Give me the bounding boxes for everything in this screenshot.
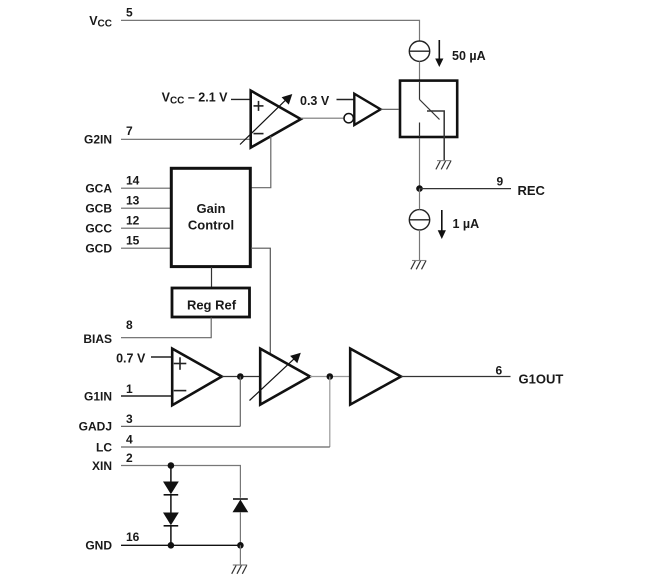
wire 0.7V to comparator U3 (151, 356, 173, 358)
diode D3 cathode bar (233, 498, 248, 500)
block Gain Control (171, 168, 250, 266)
svg-text:Gain: Gain (197, 201, 226, 216)
svg-text:GCC: GCC (85, 221, 112, 235)
wire junction down to GADJ (239, 377, 241, 427)
svg-text:0.3 V: 0.3 V (300, 94, 330, 108)
wire XIN node to diode D1 (170, 466, 172, 482)
svg-text:0.7 V: 0.7 V (116, 352, 146, 366)
switch bottom contact (419, 123, 421, 138)
wire REC node to pin 9 (420, 188, 512, 190)
wire GND node to ground symbol (239, 545, 241, 565)
arrow through comparator U1 (240, 94, 292, 145)
wire VCC pin 5 to current source (121, 20, 420, 41)
diode D2 (163, 513, 179, 526)
arrow 1 uA (438, 210, 446, 239)
wire VGA U4 output to buffer U5 (310, 376, 350, 378)
svg-text:GADJ: GADJ (79, 420, 112, 434)
node REC junction (416, 185, 423, 192)
ground below switch box (436, 161, 452, 170)
svg-text:GCB: GCB (85, 201, 112, 215)
wire buffer U5 output to pin 6 (401, 376, 511, 378)
switch right contact wire to internal ground (427, 111, 444, 161)
node junction after U4 (327, 373, 334, 380)
node junction GND diode chain (168, 542, 175, 549)
svg-text:BIAS: BIAS (83, 332, 112, 346)
wire GCC pin 12 (121, 227, 171, 229)
svg-text:7: 7 (126, 124, 133, 138)
wire comparator U1 bottom to gain control box (252, 136, 271, 188)
svg-text:15: 15 (126, 234, 140, 248)
svg-text:Control: Control (188, 217, 234, 232)
label VCC - 2.1 V (162, 91, 229, 107)
svg-text:1: 1 (126, 382, 133, 396)
svg-text:5: 5 (126, 5, 133, 19)
wire gain control right to VGA U4 (251, 248, 270, 356)
node junction GND right (237, 542, 244, 549)
wire diode D1 to diode D2 (170, 496, 172, 513)
svg-text:Reg Ref: Reg Ref (187, 297, 237, 312)
svg-text:2: 2 (126, 451, 133, 465)
wire comparator U3 output to VGA U4 (222, 376, 260, 378)
wire comparator U1 output to buffer U2 bubble (301, 117, 344, 119)
svg-text:3: 3 (126, 412, 133, 426)
svg-text:8: 8 (126, 318, 133, 332)
arrow through VGA U4 (250, 353, 301, 401)
svg-text:1 µA: 1 µA (453, 217, 480, 231)
svg-text:9: 9 (497, 174, 504, 188)
switch blade (420, 100, 440, 120)
node junction after U3 (237, 373, 244, 380)
switch top contact (419, 81, 421, 100)
svg-text:16: 16 (126, 530, 140, 544)
wire REC node to I2 (419, 189, 421, 210)
wire LC pin 4 (121, 446, 330, 448)
wire diode D2 to GND (170, 527, 172, 546)
wire GCD pin 15 (121, 247, 171, 249)
arrow 50 uA (435, 40, 443, 67)
wire VCC-2.1V to comparator U1 (231, 98, 251, 100)
wire gain control to reg ref (211, 267, 213, 288)
wire switch box to REC node (419, 138, 421, 189)
VGA amplifier U4 (260, 349, 310, 405)
svg-text:14: 14 (126, 174, 140, 188)
wire diode D3 to GND node (239, 512, 241, 545)
svg-text:4: 4 (126, 432, 133, 446)
svg-text:LC: LC (96, 440, 112, 454)
wire current source I1 to switch box (419, 61, 421, 79)
svg-text:XIN: XIN (92, 459, 112, 473)
current source I2 (1 uA) (409, 210, 429, 230)
block Reg Ref (172, 288, 250, 317)
svg-text:G1OUT: G1OUT (519, 372, 564, 387)
svg-text:REC: REC (518, 183, 546, 198)
wire 0.3V to buffer U2 top input (337, 99, 355, 101)
wire G1IN pin 1 to comparator U3 (121, 395, 173, 397)
wire GCA pin 14 (121, 187, 171, 189)
svg-text:12: 12 (126, 214, 140, 228)
comparator U1 (251, 91, 301, 148)
bubble on buffer U2 input (344, 114, 353, 123)
switch box (400, 81, 457, 137)
comparator U3 (172, 349, 222, 406)
svg-text:50 µA: 50 µA (452, 49, 486, 63)
wire buffer U2 output to switch box (381, 108, 399, 110)
wire GND pin 16 (121, 544, 240, 546)
current source I1 (50 uA) (409, 41, 429, 61)
wire BIAS pin 8 to reg ref (121, 318, 211, 338)
wire G2IN pin 7 to comparator U1 (121, 138, 251, 140)
wire GADJ pin 3 (121, 425, 240, 427)
svg-text:6: 6 (496, 364, 503, 378)
wire XIN pin 2 (121, 466, 240, 498)
wire junction down to LC (329, 377, 331, 448)
buffer U2 (354, 94, 380, 125)
svg-text:13: 13 (126, 194, 140, 208)
diode D3 (233, 500, 249, 513)
pin label VCC (89, 14, 112, 29)
svg-text:G2IN: G2IN (84, 133, 112, 147)
wire I2 to ground (419, 230, 421, 260)
output buffer U5 (350, 349, 401, 405)
wire GCB pin 13 (121, 207, 171, 209)
diode D1 (163, 482, 179, 495)
ground bottom (232, 565, 248, 574)
svg-text:GCD: GCD (85, 241, 112, 255)
svg-text:GCA: GCA (85, 181, 112, 195)
ground below I2 (411, 261, 427, 270)
svg-text:GND: GND (85, 539, 112, 553)
svg-text:G1IN: G1IN (84, 389, 112, 403)
node junction XIN diode chain (168, 462, 175, 469)
